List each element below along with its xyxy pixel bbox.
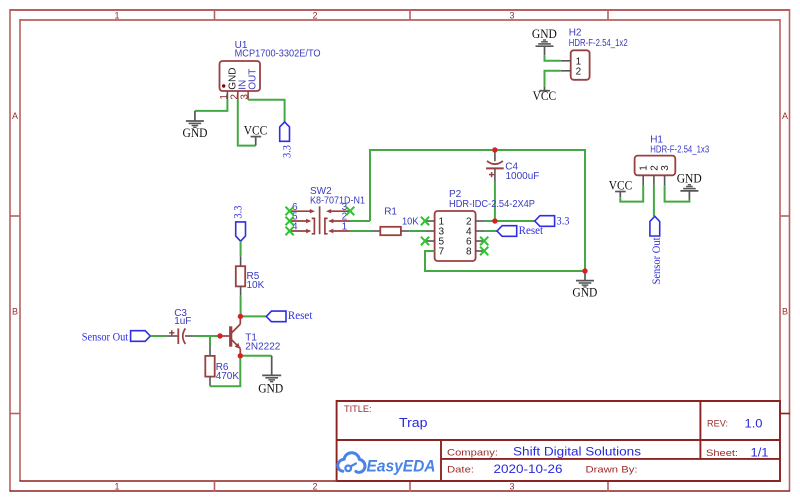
resistor R5 10K bbox=[236, 256, 265, 296]
wire P2 pin2 to 3.3 flag bbox=[486, 220, 535, 222]
svg-text:K8-7071D-N1: K8-7071D-N1 bbox=[310, 196, 365, 207]
power VCC under H2 bbox=[533, 87, 557, 103]
no-connect X SW2 pin5 bbox=[286, 217, 294, 226]
pin 7 P2 bbox=[426, 250, 435, 252]
svg-text:B: B bbox=[782, 307, 788, 317]
svg-text:10K: 10K bbox=[402, 217, 419, 228]
svg-text:VCC: VCC bbox=[244, 123, 268, 137]
svg-text:A: A bbox=[12, 111, 18, 121]
svg-text:OUT: OUT bbox=[247, 69, 258, 90]
P2 reference label bbox=[449, 189, 535, 210]
svg-text:7: 7 bbox=[439, 247, 445, 258]
no-connect X SW2 pin3 bbox=[346, 207, 354, 216]
svg-text:8: 8 bbox=[466, 247, 472, 258]
svg-text:2: 2 bbox=[649, 165, 660, 171]
svg-text:GND: GND bbox=[532, 27, 557, 41]
svg-text:3.3: 3.3 bbox=[280, 145, 294, 158]
pin 2 U1 bbox=[229, 91, 240, 100]
pin 2 P2 bbox=[476, 220, 486, 222]
wire emitter to GND bbox=[240, 355, 271, 357]
wire H1 pin2 to Sensor Out flag bbox=[653, 186, 655, 217]
svg-text:Trap: Trap bbox=[399, 416, 428, 430]
wire H2 pin1 to GND bbox=[545, 55, 561, 61]
wire R1 to P2 pin3 bbox=[410, 230, 426, 232]
wire C3 to T1 base bbox=[195, 335, 222, 337]
net flag 3.3 under U1 bbox=[280, 122, 294, 158]
wire collector to Reset flag bbox=[240, 315, 266, 317]
svg-text:Sensor Out: Sensor Out bbox=[651, 237, 663, 285]
wire R5 to collector bbox=[240, 296, 242, 318]
wire R6 bottom to emitter bbox=[210, 356, 240, 386]
net flag 3.3 right of P2 bbox=[535, 214, 570, 228]
SW2 pin numbers bbox=[292, 202, 348, 233]
svg-text:GND: GND bbox=[258, 382, 283, 396]
wire C4 bottom to P2 pin2 net bbox=[494, 181, 496, 221]
transistor T1 2N2222 bbox=[222, 318, 281, 356]
pin 2 H2 bbox=[561, 70, 571, 72]
net flag Reset at T1 bbox=[266, 308, 313, 322]
svg-text:1: 1 bbox=[639, 165, 650, 171]
svg-text:Drawn By:: Drawn By: bbox=[586, 465, 638, 476]
svg-text:2: 2 bbox=[312, 11, 317, 21]
wire P2 pin4 to Reset flag bbox=[486, 230, 497, 232]
pin 2 H1 bbox=[653, 175, 655, 185]
svg-text:3.3: 3.3 bbox=[557, 214, 570, 228]
pin 3 U1 bbox=[240, 91, 251, 100]
node junction collector bbox=[238, 314, 243, 319]
svg-text:VCC: VCC bbox=[609, 178, 633, 192]
pin 1 H1 bbox=[642, 175, 644, 185]
pin 4 P2 bbox=[476, 230, 486, 232]
pin 1 U1 bbox=[219, 91, 230, 100]
svg-text:TITLE:: TITLE: bbox=[344, 404, 372, 414]
power VCC under U1 bbox=[244, 123, 268, 145]
H2 reference label bbox=[569, 28, 628, 50]
svg-text:R1: R1 bbox=[384, 206, 397, 217]
svg-text:1: 1 bbox=[114, 482, 119, 492]
ground GND right of H1 bbox=[677, 171, 702, 200]
wire P2 pin7 to GND bbox=[425, 251, 585, 271]
ground GND under U1 bbox=[183, 111, 208, 140]
pin 3 H1 bbox=[664, 175, 666, 185]
svg-text:HDR-F-2.54_1x2: HDR-F-2.54_1x2 bbox=[569, 38, 628, 49]
svg-text:HDR-IDC-2.54-2X4P: HDR-IDC-2.54-2X4P bbox=[449, 199, 535, 210]
net flag Reset at P2 bbox=[497, 223, 544, 237]
svg-text:1uF: 1uF bbox=[174, 316, 191, 327]
node junction emitter bbox=[238, 353, 243, 358]
svg-text:3: 3 bbox=[509, 482, 514, 492]
svg-text:REV:: REV: bbox=[707, 419, 728, 430]
pin 5 P2 bbox=[426, 240, 435, 242]
pin 1 P2 bbox=[426, 220, 435, 222]
wire Sensor Out flag to C3 bbox=[150, 335, 165, 337]
net flag 3.3 above R5 bbox=[231, 206, 246, 242]
node junction GND net bbox=[582, 268, 587, 273]
logo EasyEDA bbox=[338, 453, 436, 476]
svg-text:2: 2 bbox=[576, 66, 582, 77]
svg-text:1: 1 bbox=[342, 222, 348, 233]
no-connect X P2 pin8 bbox=[480, 247, 488, 256]
net flag Sensor Out under H1 bbox=[650, 216, 663, 284]
ground GND under T1 bbox=[258, 356, 283, 396]
connector H2 HDR-F-2.54_1x2 bbox=[571, 50, 590, 80]
svg-text:Company:: Company: bbox=[447, 448, 498, 459]
wire U1 pin1 to GND bbox=[195, 100, 228, 111]
ground GND above H2 bbox=[532, 27, 557, 55]
wire top loop from SW2 pin2 over to GND vertical bbox=[370, 150, 585, 271]
svg-text:Date:: Date: bbox=[447, 465, 474, 476]
svg-text:MCP1700-3302E/TO: MCP1700-3302E/TO bbox=[235, 49, 321, 60]
svg-text:Reset: Reset bbox=[519, 223, 544, 237]
wire U1 pin2 to VCC bbox=[238, 100, 256, 146]
svg-text:Shift Digital Solutions: Shift Digital Solutions bbox=[513, 447, 641, 459]
power VCC left of H1 bbox=[609, 178, 633, 197]
svg-text:H2: H2 bbox=[569, 28, 582, 39]
switch SW2 K8-7071D-N1 bbox=[291, 206, 351, 234]
TITLEBLOCK bbox=[337, 401, 780, 481]
svg-text:3: 3 bbox=[240, 94, 251, 100]
svg-text:B: B bbox=[12, 307, 18, 317]
svg-text:Sensor Out: Sensor Out bbox=[82, 332, 129, 344]
resistor R1 bbox=[372, 206, 419, 235]
node junction C4 top bbox=[492, 147, 497, 152]
svg-text:1000uF: 1000uF bbox=[506, 171, 540, 182]
wire H1 pin1 to VCC bbox=[620, 186, 643, 202]
node junction P2 pin2 bbox=[492, 218, 497, 223]
svg-text:GND: GND bbox=[677, 171, 702, 185]
svg-text:3.3: 3.3 bbox=[231, 206, 245, 219]
wire SW2 pin2 stub to loop bbox=[350, 220, 371, 222]
connector P2 HDR-IDC-2.54-2X4P bbox=[435, 211, 476, 261]
wire H1 pin3 to GND bbox=[665, 186, 690, 202]
capacitor C3 1uF bbox=[165, 308, 194, 344]
IC U1 voltage regulator MCP1700-3302E/TO bbox=[220, 61, 261, 91]
U1 reference label bbox=[235, 40, 321, 59]
svg-text:1/1: 1/1 bbox=[751, 448, 769, 460]
connector H1 HDR-F-2.54_1x3 bbox=[635, 156, 676, 176]
svg-text:Reset: Reset bbox=[288, 308, 313, 322]
no-connect X P2 pin5 bbox=[421, 237, 429, 246]
svg-text:2: 2 bbox=[229, 94, 240, 100]
svg-text:A: A bbox=[782, 111, 788, 121]
no-connect X SW2 pin4 bbox=[286, 227, 294, 236]
node junction base bbox=[217, 333, 222, 338]
pin 6 P2 bbox=[476, 240, 484, 242]
no-connect X P2 pin1 bbox=[421, 217, 429, 226]
SW2 reference label bbox=[310, 186, 365, 207]
pin 3 P2 bbox=[426, 230, 435, 232]
pin 1 H2 bbox=[561, 60, 571, 62]
no-connect X SW2 pin6 bbox=[286, 207, 294, 216]
svg-text:2020-10-26: 2020-10-26 bbox=[494, 464, 563, 476]
svg-text:EasyEDA: EasyEDA bbox=[367, 458, 436, 476]
svg-text:VCC: VCC bbox=[533, 89, 557, 103]
svg-text:GND: GND bbox=[183, 126, 208, 140]
svg-text:Sheet:: Sheet: bbox=[706, 448, 738, 459]
resistor R6 470K bbox=[205, 347, 239, 387]
net flag Sensor Out input bbox=[82, 331, 151, 344]
no-connect X P2 pin6 bbox=[480, 237, 488, 246]
wire base branch down to R6 bbox=[209, 336, 211, 347]
wire U1 pin3 to 3.3 flag bbox=[248, 100, 285, 122]
pin 8 P2 bbox=[476, 250, 484, 252]
wire SW2 pin1 to R1 bbox=[350, 230, 372, 232]
svg-text:GND: GND bbox=[572, 285, 597, 299]
ground GND under P2 bbox=[572, 271, 597, 299]
svg-text:1.0: 1.0 bbox=[745, 417, 763, 431]
svg-text:1: 1 bbox=[219, 94, 230, 100]
H1 reference label bbox=[650, 134, 709, 155]
capacitor C4 1000uF bbox=[486, 150, 539, 182]
svg-text:3: 3 bbox=[509, 11, 514, 21]
svg-text:470K: 470K bbox=[216, 371, 240, 382]
svg-text:2N2222: 2N2222 bbox=[245, 341, 280, 352]
svg-text:2: 2 bbox=[312, 482, 317, 492]
svg-text:HDR-F-2.54_1x3: HDR-F-2.54_1x3 bbox=[650, 144, 709, 155]
svg-text:3: 3 bbox=[660, 165, 671, 171]
svg-text:1: 1 bbox=[114, 11, 119, 21]
wire H2 pin2 to VCC bbox=[545, 71, 561, 87]
wire 3.3 flag to R5 bbox=[240, 241, 242, 256]
svg-text:10K: 10K bbox=[247, 280, 265, 291]
